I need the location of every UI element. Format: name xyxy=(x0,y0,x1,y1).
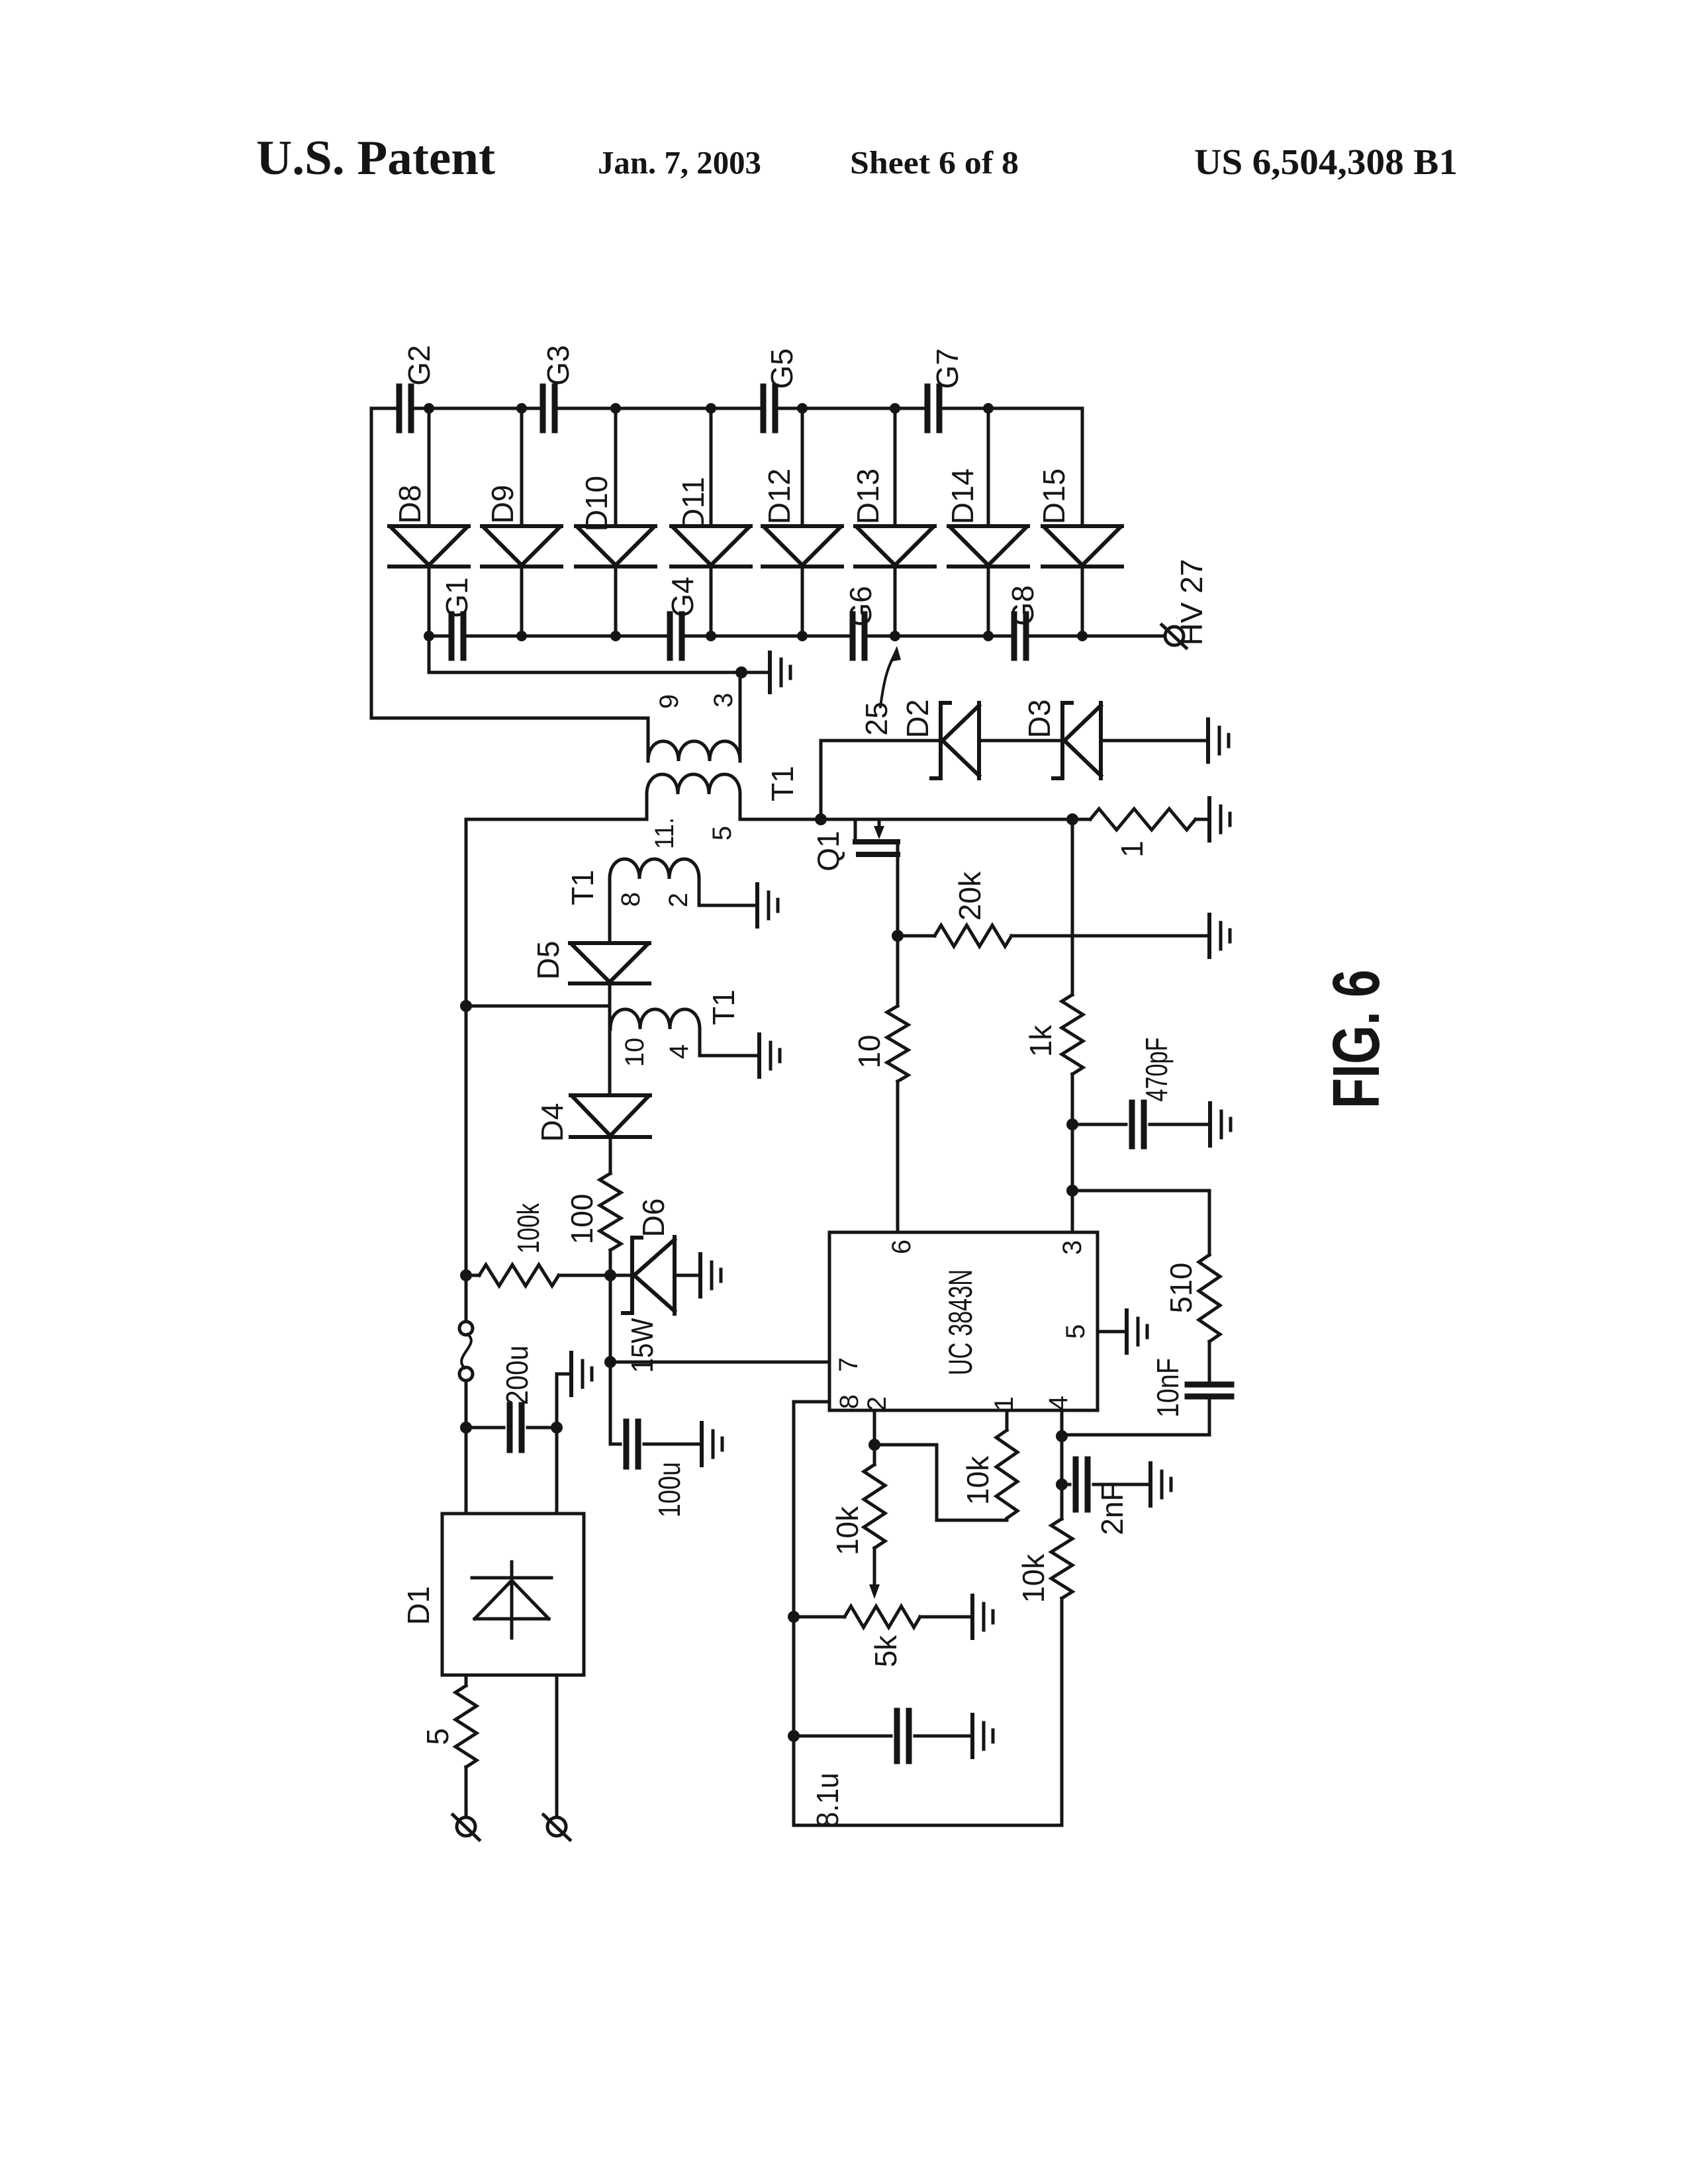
capacitor G8 xyxy=(1014,614,1026,658)
ground (2nF) xyxy=(1149,1463,1152,1506)
svg-text:G7: G7 xyxy=(930,348,964,388)
svg-text:Jan. 7, 2003: Jan. 7, 2003 xyxy=(598,144,761,181)
svg-text:5k: 5k xyxy=(868,1635,903,1668)
wire: primary top lead xyxy=(466,794,647,819)
diode D12 xyxy=(763,526,842,567)
wire: primary right lead to Q1 drain xyxy=(740,794,1090,819)
svg-text:1: 1 xyxy=(1115,841,1149,858)
wire: to AC terminal 1 xyxy=(465,1767,468,1817)
capacitor G4 xyxy=(670,614,682,658)
svg-text:T1: T1 xyxy=(765,766,800,801)
ground (470pF) xyxy=(1208,1103,1212,1146)
node: pin3 junction xyxy=(735,666,747,678)
svg-text:10k: 10k xyxy=(1016,1553,1051,1603)
wire: 20k to ground xyxy=(1011,934,1209,938)
capacitor G2 xyxy=(399,387,411,430)
wire: winding 8-2 return xyxy=(699,879,757,905)
svg-text:100u: 100u xyxy=(652,1462,686,1518)
diode D14 xyxy=(949,526,1028,567)
wire: primary bus from winding 11 down xyxy=(465,819,468,1322)
capacitor G5 xyxy=(763,387,775,430)
ground (winding 4) xyxy=(757,1034,761,1077)
potentiometer 5k xyxy=(794,1606,972,1627)
wire: sense resistor to pin 6 xyxy=(896,1081,900,1232)
winding T1 10-4 xyxy=(610,1009,700,1029)
capacitor 100u xyxy=(610,1362,620,1444)
wire: 100 to node xyxy=(609,1250,612,1275)
node: 8.1u branch xyxy=(788,1730,800,1742)
winding T1 9-3 (HV secondary) xyxy=(648,741,740,761)
svg-text:T1: T1 xyxy=(565,870,600,905)
svg-text:G4: G4 xyxy=(665,576,700,617)
capacitor 2nF xyxy=(1062,1483,1070,1486)
svg-text:5: 5 xyxy=(708,826,737,841)
svg-text:10: 10 xyxy=(852,1034,886,1068)
svg-text:D2: D2 xyxy=(900,700,935,739)
ground (20k) xyxy=(1207,915,1211,957)
diode D15 xyxy=(1043,526,1122,567)
svg-text:4: 4 xyxy=(665,1044,694,1059)
wire: to AC terminal 2 xyxy=(555,1675,559,1817)
node: D6 junction xyxy=(604,1269,616,1281)
svg-text:D4: D4 xyxy=(535,1103,569,1142)
svg-text:G6: G6 xyxy=(843,586,878,626)
resistor 1k xyxy=(1062,995,1083,1074)
wiper arrow into 5k pot xyxy=(873,1548,876,1587)
svg-text:Sheet 6 of 8: Sheet 6 of 8 xyxy=(850,144,1019,181)
winding T1 8-2 (aux) xyxy=(610,859,699,879)
svg-text:D12: D12 xyxy=(762,469,796,524)
resistor 1 (snubber) xyxy=(1090,809,1196,830)
svg-text:2: 2 xyxy=(863,1396,892,1411)
zener D3 xyxy=(1053,703,1101,778)
fuse link xyxy=(459,1322,473,1335)
wire: Q1 source down xyxy=(896,842,900,936)
bridge rectifier D1 xyxy=(442,1514,584,1675)
wire: pin 4 stub xyxy=(1060,1410,1064,1519)
wire: D3 to ground xyxy=(1101,739,1208,743)
svg-text:2nF: 2nF xyxy=(1095,1482,1129,1535)
node: 100k junction xyxy=(460,1269,472,1281)
svg-text:5: 5 xyxy=(1061,1324,1090,1339)
resistor 10k (pin 1) xyxy=(996,1430,1017,1518)
svg-text:T1: T1 xyxy=(706,989,741,1025)
wire: to bridge xyxy=(555,1428,559,1514)
svg-text:G5: G5 xyxy=(765,348,799,388)
resistor 20k xyxy=(898,925,1011,946)
wire: top rail xyxy=(371,407,1082,410)
svg-text:6: 6 xyxy=(887,1240,916,1254)
wire: aux vertical through D5/D4 xyxy=(610,879,610,1173)
wire: 1k to 470pF node xyxy=(1071,1074,1074,1124)
svg-text:D3: D3 xyxy=(1022,700,1056,739)
svg-text:US 6,504,308 B1: US 6,504,308 B1 xyxy=(1194,142,1458,182)
svg-text:11.: 11. xyxy=(650,817,679,849)
node: 200u right xyxy=(551,1422,563,1433)
node: pin 2 junction xyxy=(868,1439,880,1451)
op-amp U1 UC3843N controller box xyxy=(829,1232,1098,1410)
svg-text:4: 4 xyxy=(1044,1396,1073,1410)
svg-text:D5: D5 xyxy=(531,941,565,980)
svg-text:5: 5 xyxy=(420,1728,455,1745)
ground (snubber) xyxy=(1207,798,1211,841)
node: D5 branch xyxy=(460,1000,472,1012)
wire: left column of ladder xyxy=(370,408,373,718)
transistor Q1 (MOSFET) xyxy=(854,819,857,839)
wire: ladder column verticals xyxy=(429,408,1082,636)
wire: pin 1 stub xyxy=(1006,1410,1009,1430)
ground at transformer pin 3 xyxy=(768,653,772,692)
resistor 10 (current sense) xyxy=(887,936,908,1081)
junction dots on bottom rail xyxy=(424,631,1088,641)
svg-text:G1: G1 xyxy=(440,577,474,617)
svg-text:100: 100 xyxy=(565,1194,599,1245)
wire: pin 8 vref xyxy=(794,1402,829,1825)
svg-text:10nF: 10nF xyxy=(1150,1358,1185,1418)
wire: bottom rail xyxy=(429,635,1165,638)
resistor 5 (inrush) xyxy=(455,1675,477,1767)
diode D5 xyxy=(570,943,649,983)
wire: winding 9-3 right lead xyxy=(739,672,742,761)
capacitor G7 xyxy=(927,387,939,430)
terminal HV 27 xyxy=(1165,627,1184,645)
wire: snubber resistor to ground xyxy=(1196,818,1209,821)
capacitor G1 xyxy=(451,614,463,658)
wire: HV winding feed from ladder left column xyxy=(371,718,648,761)
wire: D2 to D3 xyxy=(979,739,1062,743)
wire: pin 7 supply rail xyxy=(610,1361,829,1364)
ground (8.1u) xyxy=(970,1715,974,1757)
diode D10 xyxy=(576,526,655,567)
svg-text:7: 7 xyxy=(834,1357,863,1372)
svg-text:20k: 20k xyxy=(953,871,987,921)
svg-text:D10: D10 xyxy=(579,476,614,531)
wire: winding 10-4 return xyxy=(700,1029,759,1056)
terminal AC input 1 xyxy=(457,1817,475,1836)
svg-text:470pF: 470pF xyxy=(1139,1038,1174,1102)
capacitor 470pF xyxy=(1072,1123,1126,1126)
svg-text:D9: D9 xyxy=(485,485,520,524)
node: 2nF branch xyxy=(1056,1479,1068,1490)
svg-text:10k: 10k xyxy=(830,1506,865,1555)
ground (rectifier) xyxy=(569,1353,573,1395)
svg-text:D8: D8 xyxy=(393,485,427,524)
ground (D6) xyxy=(698,1254,702,1297)
zener D6 15W xyxy=(610,1274,632,1277)
svg-text:15W: 15W xyxy=(625,1318,659,1373)
node: pin 4 RC junction xyxy=(1056,1430,1068,1442)
svg-text:U.S. Patent: U.S. Patent xyxy=(256,131,495,185)
resistor 100 xyxy=(600,1173,621,1250)
diode D4 xyxy=(571,1095,650,1137)
svg-text:200u: 200u xyxy=(500,1345,534,1405)
svg-text:D15: D15 xyxy=(1037,469,1071,524)
capacitor G6 xyxy=(853,614,865,658)
svg-text:3: 3 xyxy=(709,693,738,707)
capacitor 10nF xyxy=(1208,1342,1211,1380)
node: 200u left xyxy=(460,1422,472,1433)
wire: ladder return to pin 3 xyxy=(429,636,770,672)
ground (pin 5) xyxy=(1125,1310,1129,1353)
svg-text:D11: D11 xyxy=(676,477,710,531)
wire: pin 5 to ground xyxy=(1098,1330,1127,1334)
svg-text:10k: 10k xyxy=(961,1455,995,1505)
svg-text:25: 25 xyxy=(859,702,894,735)
resistor 510 xyxy=(1199,1255,1220,1342)
svg-text:2: 2 xyxy=(664,893,693,907)
wire: D6 to ground xyxy=(675,1274,700,1277)
resistor 10k (pin 2 to wiper) xyxy=(864,1465,885,1548)
node: snubber branch xyxy=(1066,813,1078,825)
svg-text:D6: D6 xyxy=(636,1199,671,1238)
svg-text:G8: G8 xyxy=(1006,585,1040,625)
ground (winding 2) xyxy=(755,884,759,927)
node: 470pF junction xyxy=(1066,1118,1078,1130)
wire: clamp riser xyxy=(821,741,941,819)
wire: riser to ground xyxy=(557,1374,571,1428)
svg-text:510: 510 xyxy=(1164,1263,1198,1314)
wire: from drain rail down to 1k xyxy=(1071,819,1074,995)
svg-text:8: 8 xyxy=(835,1394,864,1409)
capacitor 200u xyxy=(466,1426,504,1430)
svg-text:3: 3 xyxy=(1058,1240,1087,1255)
winding T1 11-5 (primary) xyxy=(647,774,740,794)
capacitor G3 xyxy=(543,387,555,430)
diode D13 xyxy=(855,526,935,567)
svg-text:FIG. 6: FIG. 6 xyxy=(1319,970,1393,1109)
junction dots on top rail xyxy=(424,403,994,414)
svg-text:G2: G2 xyxy=(402,345,436,385)
zener D2 xyxy=(931,703,979,778)
ground (100u) xyxy=(700,1423,704,1465)
capacitor 8.1u xyxy=(794,1735,891,1738)
wire: to 200u node xyxy=(465,1381,468,1514)
svg-text:Q1: Q1 xyxy=(811,831,845,871)
terminal AC input 2 xyxy=(547,1817,566,1836)
svg-text:8: 8 xyxy=(616,892,645,907)
svg-text:D1: D1 xyxy=(401,1586,436,1625)
svg-text:D14: D14 xyxy=(945,469,980,524)
node: drain rail / D2 branch xyxy=(815,813,827,825)
node: Vcc node (pin 7) xyxy=(604,1356,616,1368)
node: source / 20k junction xyxy=(892,930,904,942)
ground (clamp) xyxy=(1206,719,1210,762)
svg-text:10: 10 xyxy=(620,1038,649,1068)
resistor 10k (pin 4 timing) xyxy=(1051,1519,1072,1598)
svg-text:1k: 1k xyxy=(1023,1024,1058,1058)
diode D11 xyxy=(671,526,751,567)
resistor 100k xyxy=(466,1265,610,1286)
wire: pin 2 stub xyxy=(873,1410,876,1465)
svg-text:UC 3843N: UC 3843N xyxy=(942,1269,979,1375)
wire: down to pin 3 xyxy=(1071,1124,1074,1232)
svg-text:D13: D13 xyxy=(851,469,885,524)
wire: pin2 to bottom of pin1 divider xyxy=(874,1445,1007,1520)
ground (5k) xyxy=(970,1596,974,1638)
diode D9 xyxy=(482,526,561,567)
svg-text:G3: G3 xyxy=(541,345,575,385)
wire: branch to 510 xyxy=(1072,1191,1209,1255)
wire: D5 branch xyxy=(466,1005,610,1008)
node: vref to pot xyxy=(788,1611,800,1623)
svg-text:HV 27: HV 27 xyxy=(1174,559,1209,646)
svg-text:9: 9 xyxy=(655,694,684,709)
svg-text:1: 1 xyxy=(990,1396,1019,1411)
wire: aux rail down to Vcc node xyxy=(609,1275,612,1362)
wire: timing return loop xyxy=(794,1598,1062,1825)
node: 510 branch xyxy=(1066,1185,1078,1197)
svg-text:8.1u: 8.1u xyxy=(810,1773,845,1828)
diode D8 xyxy=(389,526,469,567)
svg-text:100k: 100k xyxy=(511,1203,545,1253)
